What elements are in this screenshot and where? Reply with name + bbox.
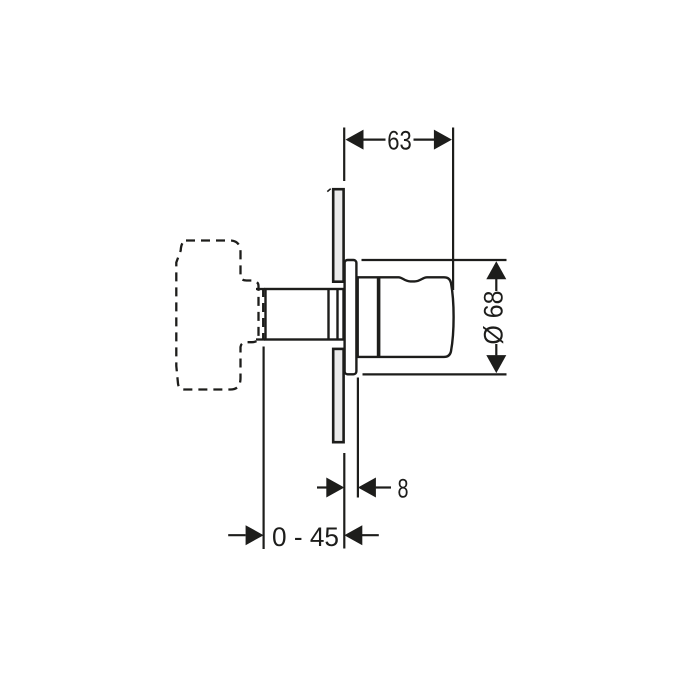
dimension o68: line lower tail (495, 344, 497, 355)
dimension 8: extension line right (357, 378, 359, 498)
dimension 63: arrow left (346, 130, 364, 150)
svg-text:63: 63 (387, 126, 412, 156)
dimension o68: line upper tail (495, 279, 497, 291)
dimension o68: extension line bottom (363, 373, 507, 375)
valve shaft / spindle body (266, 289, 344, 340)
shaft inner line 1 (327, 289, 329, 340)
dimension 8: right tail (376, 486, 391, 488)
dimension o68: extension line top (362, 259, 507, 261)
dimension 63: label (386, 128, 414, 151)
dashed ghost handle outline (max mounting depth) (176, 241, 265, 390)
dimension 63: extension line left (343, 128, 345, 182)
dimension 63: line (364, 139, 435, 141)
handle groove (377, 277, 381, 357)
dimension o68: arrow down (486, 355, 506, 373)
dimension 0-45: left tail (228, 534, 245, 536)
dimension 0-45: arrow left (246, 525, 264, 545)
dimension o68: arrow up (486, 261, 506, 279)
sleeve flange (o68 collar) (345, 260, 357, 374)
dimension 63: arrow right (434, 130, 452, 150)
dimension 8: left tail (317, 486, 327, 488)
svg-text:0 - 45: 0 - 45 (272, 522, 339, 552)
dimension 8: extension line left (343, 453, 345, 549)
shaft inner line 2 (336, 289, 338, 340)
dimension 8: arrow right (358, 478, 376, 498)
dimension 8: arrow left (326, 478, 344, 498)
dimension 0-45: extension line left (263, 347, 265, 550)
wall plate upper segment (333, 189, 343, 282)
svg-text:Ø 68: Ø 68 (479, 291, 509, 345)
handle body (358, 277, 454, 357)
wall plate lower segment (333, 349, 343, 442)
dimension 0-45: arrow right (344, 525, 362, 545)
svg-text:8: 8 (398, 473, 409, 503)
dimension 0-45: right tail (362, 534, 379, 536)
dimension 63: extension line right (452, 128, 454, 291)
stray tick near plate top-left (327, 189, 330, 192)
